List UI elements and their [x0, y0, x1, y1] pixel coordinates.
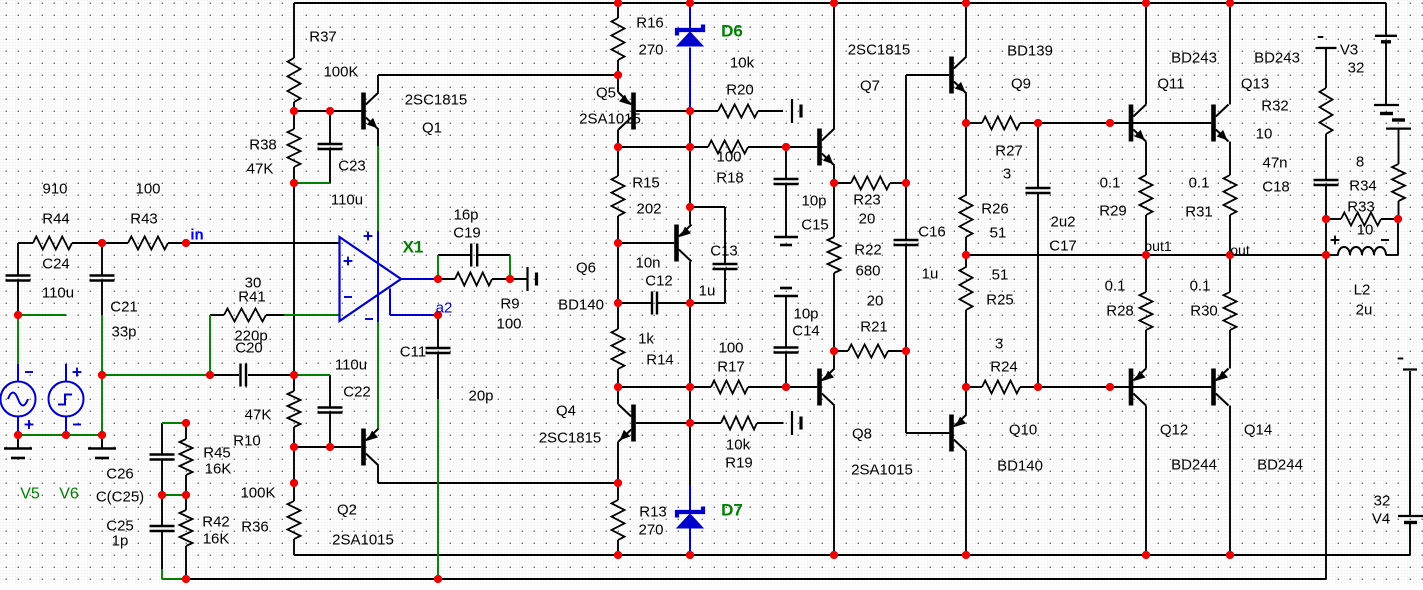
svg-text:47K: 47K [247, 161, 274, 178]
svg-text:C14: C14 [792, 323, 820, 340]
svg-text:R26: R26 [981, 201, 1009, 218]
svg-text:910: 910 [42, 181, 67, 198]
svg-text:C13: C13 [710, 243, 738, 260]
svg-text:16p: 16p [453, 207, 478, 224]
svg-text:10n: 10n [635, 255, 660, 272]
svg-text:C24: C24 [42, 256, 70, 273]
svg-text:100K: 100K [323, 64, 358, 81]
svg-text:BD243: BD243 [1171, 50, 1217, 67]
svg-text:R25: R25 [986, 292, 1014, 309]
svg-text:C19: C19 [453, 225, 481, 242]
svg-text:2SC1815: 2SC1815 [405, 92, 468, 109]
svg-text:10k: 10k [730, 55, 755, 72]
svg-text:1k: 1k [638, 331, 654, 348]
svg-text:270: 270 [638, 42, 663, 59]
svg-text:R18: R18 [716, 170, 744, 187]
svg-text:2SA1015: 2SA1015 [851, 462, 913, 479]
svg-text:C26: C26 [106, 466, 134, 483]
svg-text:R28: R28 [1106, 303, 1134, 320]
svg-text:270: 270 [638, 522, 663, 539]
svg-text:R44: R44 [42, 211, 70, 228]
svg-text:2SC1815: 2SC1815 [539, 430, 602, 447]
svg-text:100K: 100K [240, 485, 275, 502]
svg-text:0.1: 0.1 [1189, 175, 1210, 192]
svg-text:V3: V3 [1340, 42, 1358, 59]
svg-text:Q11: Q11 [1157, 76, 1184, 93]
svg-text:out: out [1230, 242, 1250, 258]
svg-text:680: 680 [855, 263, 880, 280]
svg-text:R23: R23 [853, 192, 881, 209]
svg-text:R9: R9 [500, 296, 519, 313]
svg-text:Q2: Q2 [337, 502, 357, 519]
svg-text:100: 100 [135, 181, 160, 198]
svg-text:R34: R34 [1349, 178, 1377, 195]
svg-text:2SA1015: 2SA1015 [332, 532, 394, 549]
svg-text:C21: C21 [110, 299, 138, 316]
svg-text:C17: C17 [1049, 238, 1077, 255]
svg-text:20: 20 [859, 211, 876, 228]
svg-text:Q14: Q14 [1244, 422, 1272, 439]
svg-text:2SC1815: 2SC1815 [848, 42, 911, 59]
svg-text:V5: V5 [20, 486, 40, 503]
svg-text:2SA1015: 2SA1015 [579, 111, 641, 128]
svg-text:C15: C15 [801, 217, 829, 234]
svg-text:R10: R10 [233, 433, 261, 450]
svg-text:1u: 1u [699, 283, 716, 300]
svg-text:32: 32 [1374, 493, 1391, 510]
svg-text:D6: D6 [721, 22, 743, 41]
svg-text:R15: R15 [632, 175, 660, 192]
svg-text:100: 100 [716, 149, 741, 166]
svg-text:16K: 16K [205, 461, 232, 478]
svg-text:R45: R45 [203, 445, 231, 462]
svg-text:C(C25): C(C25) [96, 489, 144, 506]
svg-text:Q13: Q13 [1241, 76, 1269, 93]
svg-text:R19: R19 [725, 455, 753, 472]
svg-text:R36: R36 [241, 519, 269, 536]
svg-text:51: 51 [990, 225, 1007, 242]
svg-text:R22: R22 [854, 242, 882, 259]
svg-text:V4: V4 [1372, 511, 1390, 528]
svg-text:R27: R27 [995, 143, 1023, 160]
svg-text:R32: R32 [1261, 98, 1289, 115]
svg-text:110u: 110u [335, 357, 367, 374]
svg-text:Q12: Q12 [1160, 422, 1188, 439]
svg-text:1u: 1u [922, 266, 939, 283]
svg-text:100: 100 [496, 316, 521, 333]
svg-text:0.1: 0.1 [1105, 278, 1126, 295]
svg-text:L2: L2 [1354, 282, 1371, 299]
svg-text:BD140: BD140 [558, 297, 604, 314]
svg-text:10p: 10p [793, 306, 818, 323]
svg-text:C12: C12 [645, 273, 673, 290]
svg-text:BD244: BD244 [1171, 457, 1217, 474]
svg-text:2u2: 2u2 [1050, 214, 1075, 231]
svg-text:R43: R43 [130, 211, 158, 228]
svg-text:R24: R24 [990, 359, 1018, 376]
svg-text:X1: X1 [403, 238, 424, 257]
svg-text:16K: 16K [203, 531, 230, 548]
svg-text:2u: 2u [1356, 302, 1373, 319]
svg-text:a2: a2 [436, 300, 453, 317]
svg-text:Q10: Q10 [1009, 422, 1037, 439]
svg-text:110u: 110u [331, 192, 363, 209]
svg-text:BD244: BD244 [1257, 457, 1303, 474]
svg-text:3: 3 [1003, 166, 1011, 183]
svg-text:C23: C23 [338, 158, 366, 175]
svg-text:20p: 20p [468, 388, 493, 405]
svg-text:0.1: 0.1 [1100, 175, 1121, 192]
svg-text:3: 3 [995, 336, 1003, 353]
svg-text:R17: R17 [717, 359, 745, 376]
svg-text:202: 202 [636, 201, 661, 218]
svg-text:C16: C16 [918, 224, 946, 241]
svg-text:R33: R33 [1347, 199, 1375, 216]
svg-text:51: 51 [992, 267, 1009, 284]
svg-text:R13: R13 [639, 504, 667, 521]
svg-text:33p: 33p [111, 324, 136, 341]
svg-text:1p: 1p [112, 533, 129, 550]
svg-text:C20: C20 [235, 340, 263, 357]
svg-text:R37: R37 [309, 29, 337, 46]
svg-text:R16: R16 [636, 15, 664, 32]
svg-text:C22: C22 [343, 384, 371, 401]
svg-text:D7: D7 [721, 501, 743, 520]
svg-text:10: 10 [1256, 126, 1273, 143]
svg-text:R42: R42 [202, 514, 230, 531]
svg-text:R20: R20 [726, 82, 754, 99]
svg-text:20: 20 [867, 293, 884, 310]
svg-text:R38: R38 [249, 137, 277, 154]
svg-text:Q9: Q9 [1011, 76, 1031, 93]
svg-text:10k: 10k [726, 437, 751, 454]
svg-text:out1: out1 [1144, 238, 1171, 254]
svg-text:Q7: Q7 [860, 78, 880, 95]
svg-text:BD243: BD243 [1254, 50, 1300, 67]
svg-text:R41: R41 [238, 289, 266, 306]
svg-text:R14: R14 [646, 352, 674, 369]
svg-text:100: 100 [718, 340, 743, 357]
svg-text:BD140: BD140 [997, 458, 1043, 475]
svg-text:47K: 47K [245, 407, 272, 424]
svg-text:R21: R21 [860, 319, 888, 336]
svg-text:Q5: Q5 [596, 85, 616, 102]
svg-text:8: 8 [1356, 154, 1364, 171]
svg-text:Q1: Q1 [422, 120, 442, 137]
svg-text:V6: V6 [59, 486, 79, 503]
svg-text:Q8: Q8 [852, 426, 872, 443]
svg-text:47n: 47n [1262, 155, 1287, 172]
svg-text:C11: C11 [400, 344, 426, 361]
svg-text:in: in [190, 227, 203, 244]
svg-text:C18: C18 [1262, 179, 1290, 196]
svg-text:10: 10 [1357, 222, 1374, 239]
svg-text:10p: 10p [801, 193, 826, 210]
svg-text:110u: 110u [42, 285, 74, 302]
svg-text:0.1: 0.1 [1190, 278, 1211, 295]
svg-text:R29: R29 [1099, 203, 1127, 220]
svg-text:R31: R31 [1185, 204, 1213, 221]
svg-text:R30: R30 [1190, 303, 1218, 320]
svg-text:Q4: Q4 [556, 403, 576, 420]
svg-text:32: 32 [1348, 60, 1365, 77]
svg-text:BD139: BD139 [1007, 43, 1053, 60]
svg-text:Q6: Q6 [576, 260, 596, 277]
